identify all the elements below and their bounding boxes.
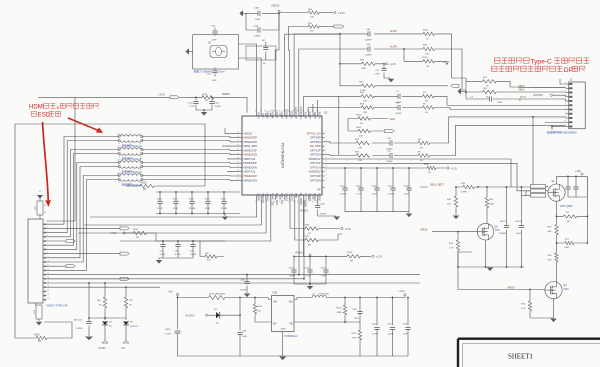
svg-text:7002: 7002 bbox=[495, 230, 501, 232]
svg-text:22R: 22R bbox=[358, 147, 362, 149]
resistor R48 NC bbox=[290, 228, 340, 230]
resistor R142 0R bbox=[125, 232, 133, 234]
svg-text:Y6 2: Y6 2 bbox=[117, 173, 122, 175]
svg-text:1000NF: 1000NF bbox=[499, 233, 507, 235]
svg-text:R151: R151 bbox=[141, 182, 147, 185]
capacitor C101 22PF bbox=[359, 298, 361, 323]
svg-text:DPTX3P: DPTX3P bbox=[310, 174, 320, 178]
svg-text:R101: R101 bbox=[356, 127, 362, 129]
wire VDD12 to U3 bbox=[275, 13, 279, 112]
resistor R115 1M bbox=[404, 60, 447, 62]
svg-text:90ohm/2: 90ohm/2 bbox=[132, 184, 142, 187]
wire Q2 gate bbox=[432, 231, 477, 233]
svg-text:C48: C48 bbox=[211, 26, 216, 28]
wire cap bank 2 bottom bbox=[159, 258, 193, 260]
svg-text:5: 5 bbox=[565, 99, 566, 101]
svg-text:+3.3V: +3.3V bbox=[158, 93, 165, 97]
svg-text:100NF: 100NF bbox=[240, 289, 247, 291]
capacitor A7 NC bbox=[265, 42, 267, 60]
inductor L2 1UH bbox=[297, 298, 312, 300]
capacitor C106 10NF bbox=[376, 168, 378, 212]
ground U30 bbox=[279, 357, 286, 361]
wire U3 misc left pins bbox=[222, 128, 240, 172]
capacitor C105 4.7UF bbox=[360, 168, 362, 212]
connector J1 pins bbox=[566, 83, 569, 85]
svg-text:42: 42 bbox=[237, 140, 239, 142]
capacitor C116 4.7UF bbox=[159, 192, 161, 214]
svg-text:GND: GND bbox=[281, 329, 286, 331]
IC U3 bottom pins bbox=[255, 195, 257, 200]
capacitor C29 100NF bbox=[368, 46, 370, 51]
wire FB node bbox=[297, 321, 360, 323]
svg-text:R51: R51 bbox=[308, 23, 313, 25]
svg-text:4.7NF: 4.7NF bbox=[374, 74, 380, 76]
svg-text:10K: 10K bbox=[310, 16, 314, 18]
svg-text:49: 49 bbox=[283, 110, 285, 112]
svg-text:C7: C7 bbox=[396, 91, 400, 93]
red note: Type-C upper half DP lanes bbox=[494, 58, 500, 63]
svg-text:R48: R48 bbox=[305, 224, 310, 226]
resistor R151 0R (shield tie) bbox=[140, 184, 154, 187]
svg-text:GPIO0: GPIO0 bbox=[266, 111, 269, 119]
wire VDD33 vertical bbox=[38, 97, 170, 221]
connector J1 Type-C body bbox=[569, 82, 586, 129]
wire +5V branch rails bbox=[105, 283, 126, 297]
wire SBU ladder spine bbox=[338, 96, 340, 155]
svg-text:40: 40 bbox=[237, 132, 239, 134]
ground C31 bbox=[388, 79, 395, 83]
svg-text:21: 21 bbox=[278, 201, 280, 203]
svg-text:21: 21 bbox=[44, 212, 47, 214]
transistor Q2 7002 bbox=[477, 223, 494, 240]
resistor R161 0R bbox=[36, 336, 47, 339]
svg-text:43: 43 bbox=[311, 110, 313, 112]
svg-text:18: 18 bbox=[47, 294, 49, 296]
svg-text:0R: 0R bbox=[38, 340, 41, 343]
svg-text:51: 51 bbox=[273, 110, 275, 112]
capacitor C112 10NF bbox=[325, 256, 327, 284]
wire VBUS det row bbox=[420, 186, 531, 188]
svg-text:17: 17 bbox=[47, 290, 49, 292]
wire top pins stub bus bbox=[304, 96, 339, 112]
svg-text:D4: D4 bbox=[109, 322, 113, 324]
svg-text:10K: 10K bbox=[447, 204, 451, 206]
svg-text:100K: 100K bbox=[489, 204, 495, 206]
svg-text:R43: R43 bbox=[305, 236, 310, 238]
resistor R79 4.7K bbox=[529, 290, 531, 302]
svg-text:C105: C105 bbox=[387, 323, 393, 325]
svg-text:C121: C121 bbox=[215, 102, 221, 104]
svg-text:HDMI2D0P: HDMI2D0P bbox=[244, 161, 257, 165]
svg-text:100K: 100K bbox=[361, 68, 367, 70]
ground crystal bbox=[185, 48, 189, 54]
svg-text:0R: 0R bbox=[129, 305, 132, 307]
resistor R5 0R bbox=[418, 154, 430, 157]
svg-text:22R: 22R bbox=[358, 160, 362, 162]
svg-text:1: 1 bbox=[119, 169, 121, 171]
svg-text:Q2: Q2 bbox=[495, 227, 499, 229]
svg-text:HDC1: HDC1 bbox=[500, 221, 507, 223]
ground cap bank 4 bbox=[309, 284, 311, 286]
resistor R101 50K bbox=[348, 130, 385, 132]
wire DP aux rails right bbox=[325, 159, 512, 187]
wire +12V rail bbox=[557, 176, 588, 212]
resistor R40 10K bbox=[455, 187, 457, 196]
capacitor C30 100NF bbox=[368, 31, 370, 36]
svg-text:C117: C117 bbox=[173, 199, 179, 201]
svg-text:+1.2V: +1.2V bbox=[398, 290, 405, 293]
resistor R76 4.7K bbox=[457, 231, 459, 233]
svg-text:VIN: VIN bbox=[273, 300, 277, 303]
svg-text:VDDRX12: VDDRX12 bbox=[308, 157, 321, 161]
svg-text:22R: 22R bbox=[363, 112, 367, 114]
resistor R141 0R bbox=[180, 96, 202, 98]
wire +1.2V rail under U3 right bbox=[325, 167, 447, 169]
svg-text:AUXN: AUXN bbox=[390, 45, 397, 48]
svg-text:EX_ADDR: EX_ADDR bbox=[299, 193, 302, 205]
svg-text:19: 19 bbox=[268, 201, 270, 203]
svg-text:D2: D2 bbox=[214, 309, 218, 311]
svg-text:GPIO6: GPIO6 bbox=[256, 193, 259, 201]
capacitor C7 100NF bbox=[398, 94, 400, 99]
wire Q4 source bbox=[553, 299, 555, 318]
svg-text:VCC5V: VCC5V bbox=[98, 348, 106, 350]
common-mode choke Y6 bbox=[116, 175, 119, 177]
resistor R7 0R bbox=[423, 95, 435, 98]
svg-text:0R: 0R bbox=[420, 160, 423, 162]
svg-text:R211 0R(L0805): R211 0R(L0805) bbox=[209, 293, 225, 295]
resistor R96 47K bbox=[423, 47, 435, 50]
capacitor C103 10UF bbox=[407, 298, 409, 357]
svg-text:100NF: 100NF bbox=[388, 194, 395, 196]
svg-text:L2: L2 bbox=[312, 294, 315, 296]
ground R40 bbox=[453, 216, 460, 220]
svg-text:4.7UF: 4.7UF bbox=[189, 106, 195, 108]
diode D4 NC bbox=[104, 318, 106, 320]
svg-text:HDC2: HDC2 bbox=[516, 221, 523, 223]
resistor R109 0R bbox=[304, 200, 372, 257]
transistor Q1 4953 bbox=[548, 184, 565, 201]
svg-text:10NF: 10NF bbox=[321, 276, 327, 278]
resistor R211 0R bbox=[178, 297, 269, 299]
resistor R6 0R bbox=[423, 106, 435, 109]
svg-text:4.7K: 4.7K bbox=[521, 308, 526, 310]
IC U3 PS176HDMI QFN body bbox=[242, 116, 322, 195]
svg-text:22PF: 22PF bbox=[354, 318, 360, 320]
svg-text:XTLI: XTLI bbox=[261, 113, 264, 119]
power +1.2V R109 bbox=[372, 255, 374, 257]
svg-text:VDDA33: VDDA33 bbox=[261, 193, 264, 203]
ground cap bank 2 bbox=[156, 260, 163, 264]
svg-text:10NF: 10NF bbox=[497, 102, 503, 104]
capacitor CB22 4.7UF bbox=[177, 298, 179, 357]
svg-text:C101: C101 bbox=[352, 309, 358, 311]
svg-text:5: 5 bbox=[326, 145, 327, 147]
svg-text:XTLO: XTLO bbox=[256, 112, 259, 119]
svg-text:8: 8 bbox=[565, 112, 566, 114]
svg-text:28: 28 bbox=[311, 201, 313, 203]
svg-text:47K: 47K bbox=[207, 260, 211, 262]
capacitor C98 100P bbox=[239, 315, 241, 356]
svg-text:4.7UF: 4.7UF bbox=[305, 276, 311, 278]
svg-text:SBUP: SBUP bbox=[313, 112, 316, 119]
svg-text:100NF: 100NF bbox=[386, 161, 393, 163]
svg-text:10NF: 10NF bbox=[372, 194, 378, 196]
svg-text:Y9 2: Y9 2 bbox=[117, 134, 122, 136]
svg-text:41: 41 bbox=[237, 136, 239, 138]
wire shield bottom return bbox=[15, 322, 72, 338]
svg-text:100NF: 100NF bbox=[215, 106, 222, 108]
svg-text:R96: R96 bbox=[97, 300, 102, 302]
capacitor C130 100NF bbox=[318, 200, 336, 217]
svg-text:DPTX3N: DPTX3N bbox=[310, 178, 320, 182]
wire ground rail bottom bbox=[178, 355, 409, 357]
svg-text:2K: 2K bbox=[486, 97, 489, 99]
svg-text:PCB(GREEN): PCB(GREEN) bbox=[561, 131, 577, 135]
wire Q4 gate bbox=[458, 252, 545, 290]
svg-text:42: 42 bbox=[316, 110, 318, 112]
svg-text:HDMI2D1P: HDMI2D1P bbox=[244, 148, 257, 152]
svg-text:9: 9 bbox=[565, 116, 566, 118]
svg-text:100NF: 100NF bbox=[289, 276, 296, 278]
svg-text:VDD10: VDD10 bbox=[318, 193, 321, 202]
resistor R97 0R bbox=[124, 297, 127, 308]
svg-text:HDMI2CKN: HDMI2CKN bbox=[244, 178, 258, 182]
svg-text:R109: R109 bbox=[347, 252, 353, 254]
svg-text:48: 48 bbox=[287, 110, 289, 112]
svg-text:+5V: +5V bbox=[168, 289, 173, 293]
svg-text:R25: R25 bbox=[483, 77, 488, 79]
svg-text:BDC124: BDC124 bbox=[74, 320, 83, 322]
capacitor C117 10NF bbox=[175, 192, 177, 214]
capacitor C27 bbox=[576, 176, 587, 197]
svg-text:C104: C104 bbox=[339, 185, 345, 187]
capacitor C135 10NF bbox=[246, 12, 279, 14]
wire connector shell stub bbox=[35, 303, 37, 305]
diode D2 NC bbox=[208, 314, 216, 316]
svg-text:C103: C103 bbox=[402, 323, 408, 325]
svg-text:13: 13 bbox=[326, 179, 328, 181]
wire diode rail bbox=[89, 317, 126, 319]
wire L2 output rail bbox=[326, 297, 405, 299]
svg-text:J1: J1 bbox=[570, 79, 573, 82]
svg-text:DPTX1_ON: DPTX1_ON bbox=[307, 131, 321, 135]
power +1.2V output bbox=[404, 296, 406, 298]
svg-text:VDD33: VDD33 bbox=[222, 93, 230, 96]
svg-text:R40: R40 bbox=[447, 199, 452, 201]
svg-text:4.99K: 4.99K bbox=[461, 191, 467, 193]
svg-text:10NF: 10NF bbox=[205, 208, 211, 210]
svg-text:43: 43 bbox=[237, 145, 239, 147]
svg-text:R97: R97 bbox=[129, 300, 134, 302]
svg-text:AUX2CKN: AUX2CKN bbox=[299, 107, 302, 119]
svg-text:19: 19 bbox=[47, 298, 49, 300]
svg-text:+12V: +12V bbox=[575, 170, 581, 173]
ground BDC124 bbox=[85, 337, 93, 341]
resistor R51 10K bbox=[288, 26, 308, 28]
ground cap bank 3 bbox=[408, 212, 410, 213]
svg-text:7: 7 bbox=[565, 108, 566, 110]
capacitor C10 100NF bbox=[390, 140, 392, 145]
svg-text:100NF: 100NF bbox=[388, 333, 395, 335]
svg-text:R44: R44 bbox=[355, 139, 360, 141]
svg-text:100NF: 100NF bbox=[365, 40, 372, 42]
net flag R101 bbox=[385, 130, 395, 133]
svg-text:C104: C104 bbox=[371, 323, 377, 325]
capacitor HDC2 10UF bbox=[520, 187, 522, 267]
svg-text:SHEET1: SHEET1 bbox=[508, 354, 533, 361]
svg-text:+3.3V: +3.3V bbox=[345, 228, 352, 231]
svg-text:C130: C130 bbox=[320, 203, 326, 205]
resistor R150 1M (HDMI 5V pulldown) bbox=[37, 201, 43, 215]
svg-text:4.7UF: 4.7UF bbox=[175, 254, 181, 256]
wire AUXP row bbox=[360, 34, 466, 78]
svg-text:CNSDA: CNSDA bbox=[270, 110, 273, 119]
svg-text:+3.3V: +3.3V bbox=[338, 11, 345, 15]
red arrow to chokes bbox=[68, 118, 99, 131]
capacitor C43 100NF bbox=[192, 241, 194, 258]
capacitor C11 100NF bbox=[390, 153, 392, 158]
HDMI connector P1 body bbox=[28, 219, 43, 303]
svg-text:VDD33: VDD33 bbox=[244, 131, 253, 135]
svg-text:DP_RPD: DP_RPD bbox=[310, 144, 321, 148]
diode D8 MZ5226 bbox=[125, 318, 127, 320]
svg-text:R6: R6 bbox=[423, 103, 427, 105]
wire RSTN stub bbox=[313, 100, 318, 113]
svg-text:+5V: +5V bbox=[121, 348, 126, 350]
resistor R42 22R bbox=[356, 154, 370, 157]
svg-text:Type-C: Type-C bbox=[530, 59, 552, 66]
resistor R96b 0R bbox=[103, 297, 106, 308]
resistor R87 49K bbox=[556, 212, 558, 224]
wire CNS bus to top-right bbox=[285, 34, 360, 113]
svg-text:4.7K: 4.7K bbox=[449, 248, 454, 250]
capacitor C41 10NF bbox=[162, 241, 164, 258]
svg-text:EN: EN bbox=[273, 322, 277, 325]
svg-text:AUXN: AUXN bbox=[308, 112, 311, 119]
svg-text:10NF: 10NF bbox=[404, 194, 410, 196]
svg-text:0R: 0R bbox=[205, 100, 208, 102]
svg-text:SW: SW bbox=[289, 300, 294, 303]
wire U3 bottom GPIO bundle bbox=[78, 200, 271, 242]
wire R51 to U3 top bbox=[288, 27, 289, 113]
svg-text:VDDA33: VDDA33 bbox=[285, 109, 288, 119]
red arrow to HDMI connector bbox=[43, 122, 49, 200]
svg-text:C110: C110 bbox=[289, 267, 295, 269]
power +3.3V bbox=[334, 11, 336, 13]
resistor R26 2K NC bbox=[466, 91, 566, 93]
IC U3 right pins bbox=[322, 132, 325, 134]
svg-text:+3.3V: +3.3V bbox=[443, 61, 450, 64]
svg-text:GPIO8: GPIO8 bbox=[420, 228, 428, 231]
svg-text:U30: U30 bbox=[273, 292, 278, 295]
svg-text:4: 4 bbox=[565, 95, 566, 97]
resistor R68 49K bbox=[556, 243, 558, 253]
svg-text:NC: NC bbox=[263, 63, 267, 65]
svg-text:27.000MHZ 2.5*2.0mm: 27.000MHZ 2.5*2.0mm bbox=[199, 71, 224, 74]
svg-text:AVDDR12: AVDDR12 bbox=[309, 170, 321, 174]
svg-text:10NF: 10NF bbox=[173, 208, 179, 210]
svg-text:DPTX0P: DPTX0P bbox=[310, 136, 320, 140]
svg-text:100K: 100K bbox=[564, 247, 570, 249]
power symbol VDD12 bbox=[278, 10, 280, 12]
ground C100 bbox=[244, 294, 251, 298]
wire SBU row 2 bbox=[339, 108, 566, 110]
wire U30 ground bbox=[282, 335, 284, 357]
svg-text:0R: 0R bbox=[308, 244, 311, 246]
svg-text:R67: R67 bbox=[359, 82, 364, 84]
svg-text:47: 47 bbox=[292, 110, 294, 112]
wire +12V right drop bbox=[586, 176, 588, 243]
capacitor BDC124 100NF bbox=[88, 283, 90, 336]
svg-text:C31: C31 bbox=[375, 70, 380, 72]
svg-text:18: 18 bbox=[264, 201, 266, 203]
svg-text:VDD33: VDD33 bbox=[308, 193, 311, 202]
capacitor C42 4.7UF bbox=[177, 241, 179, 258]
svg-text:VDDIO: VDDIO bbox=[289, 111, 292, 119]
svg-text:R204: R204 bbox=[337, 308, 343, 310]
svg-text:R161: R161 bbox=[34, 334, 40, 337]
svg-text:44: 44 bbox=[237, 149, 239, 151]
svg-text:+3.3V: +3.3V bbox=[110, 232, 117, 235]
svg-text:46: 46 bbox=[237, 157, 239, 159]
svg-text:+1.2V: +1.2V bbox=[451, 167, 458, 170]
ground C121/C122 bbox=[203, 110, 205, 112]
ground ladder bbox=[457, 88, 461, 94]
svg-text:C108: C108 bbox=[403, 185, 409, 187]
capacitor HDC1 1000NF bbox=[506, 187, 508, 267]
svg-text:51: 51 bbox=[237, 179, 239, 181]
net flag R67 bbox=[451, 84, 459, 87]
svg-text:Q1: Q1 bbox=[552, 181, 556, 183]
svg-text:RSTN: RSTN bbox=[318, 112, 321, 119]
capacitor C4 10NF bbox=[466, 99, 566, 101]
svg-text:NC: NC bbox=[567, 221, 571, 223]
transistor Q4 7002 bbox=[545, 282, 562, 299]
svg-text:GPIO3: GPIO3 bbox=[313, 193, 316, 201]
svg-text:R5: R5 bbox=[418, 151, 422, 153]
power +12V bbox=[581, 173, 583, 175]
svg-text:R30: R30 bbox=[308, 9, 313, 11]
svg-text:C42: C42 bbox=[175, 251, 180, 253]
capacitor C44 10PF bbox=[214, 68, 216, 77]
svg-text:HDMI2D0N: HDMI2D0N bbox=[244, 165, 257, 169]
svg-text:C43: C43 bbox=[190, 251, 195, 253]
svg-text:ESD: ESD bbox=[38, 112, 51, 119]
svg-text:X2: X2 bbox=[208, 43, 212, 45]
common-mode choke Y7 bbox=[116, 162, 119, 164]
svg-text:VDDTX12: VDDTX12 bbox=[244, 170, 256, 174]
wire ladder spine bbox=[465, 78, 467, 99]
svg-text:R100: R100 bbox=[356, 114, 362, 116]
svg-text:DPTX0N: DPTX0N bbox=[310, 140, 320, 144]
svg-text:FB: FB bbox=[289, 322, 292, 325]
svg-text:R115: R115 bbox=[422, 57, 428, 59]
svg-text:1: 1 bbox=[119, 156, 121, 158]
svg-text:R87: R87 bbox=[548, 227, 553, 229]
crystal X2 27MHz bbox=[210, 46, 227, 58]
svg-text:C112: C112 bbox=[321, 267, 327, 269]
svg-text:23: 23 bbox=[44, 205, 47, 207]
svg-text:HDMI_CEC: HDMI_CEC bbox=[270, 193, 273, 206]
svg-text:3: 3 bbox=[326, 136, 327, 138]
svg-text:R12: R12 bbox=[34, 309, 36, 314]
svg-text:VCC5V0: VCC5V0 bbox=[533, 94, 543, 97]
svg-text:470NF: 470NF bbox=[372, 333, 379, 335]
svg-text:R42: R42 bbox=[355, 151, 360, 153]
ground VDD12 caps bbox=[239, 10, 243, 16]
capacitor C121 100NF bbox=[211, 97, 213, 110]
